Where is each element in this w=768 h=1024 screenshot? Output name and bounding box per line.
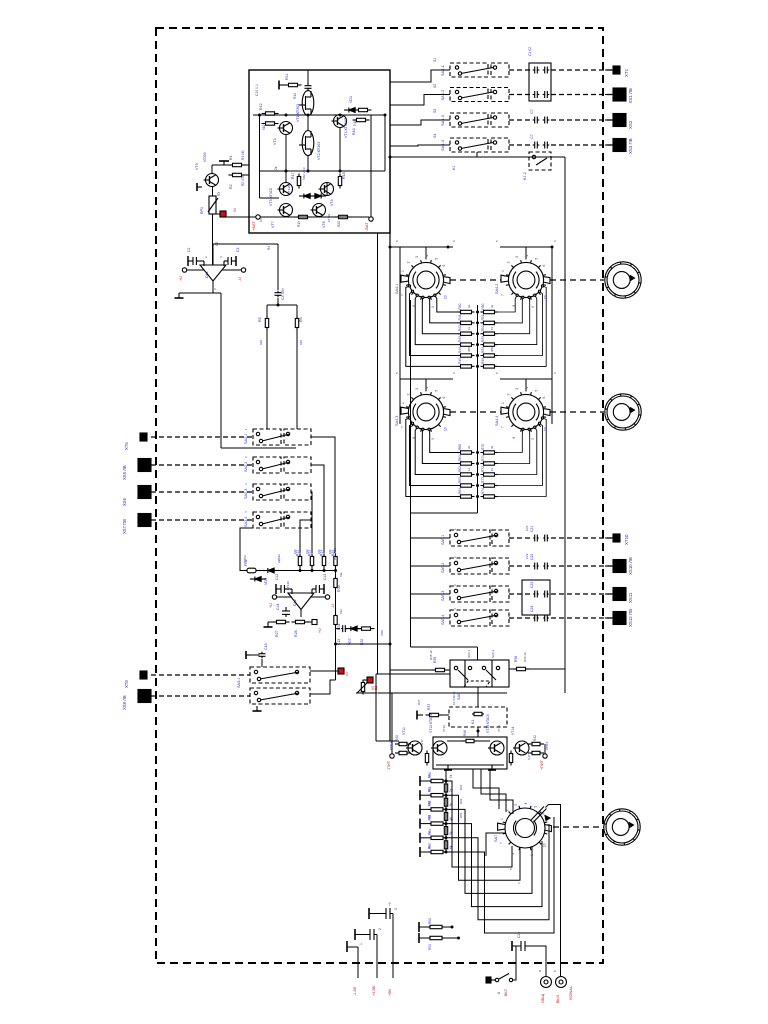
resistor R94 bbox=[444, 839, 447, 850]
svg-text:R70: R70 bbox=[481, 444, 485, 450]
svg-text:R51: R51 bbox=[481, 314, 485, 320]
wire bbox=[425, 247, 427, 259]
svg-text:R2 47k: R2 47k bbox=[241, 175, 245, 186]
svg-text:DA2: DA2 bbox=[293, 599, 297, 606]
wire bbox=[259, 115, 261, 198]
svg-text:4: 4 bbox=[524, 803, 528, 805]
resistor R55 bbox=[481, 365, 498, 368]
resistor R16 bbox=[353, 118, 370, 121]
terminal -BAT bbox=[369, 217, 373, 221]
wire bbox=[525, 379, 527, 391]
ground bbox=[368, 908, 370, 919]
wire bbox=[498, 286, 547, 366]
svg-text:R16: R16 bbox=[352, 128, 356, 135]
resistor R41 bbox=[458, 321, 475, 324]
wire bbox=[300, 610, 302, 618]
wire bbox=[311, 465, 324, 553]
svg-text:6: 6 bbox=[442, 265, 446, 267]
svg-text:ОБЩ: ОБЩ bbox=[541, 994, 545, 1003]
svg-text:XS6: XS6 bbox=[122, 497, 127, 506]
wire bbox=[447, 740, 462, 742]
resistor R70 bbox=[481, 451, 498, 454]
svg-text:R36 1k: R36 1k bbox=[523, 652, 527, 662]
resistor R53 bbox=[481, 343, 498, 346]
wire bbox=[550, 411, 604, 413]
resistor R27 bbox=[273, 620, 290, 623]
svg-text:C22: C22 bbox=[530, 554, 534, 560]
wire bbox=[151, 464, 253, 466]
resistor R40 bbox=[395, 742, 411, 745]
svg-text:10k: 10k bbox=[305, 549, 309, 554]
output stage box bbox=[433, 737, 507, 769]
wire bbox=[212, 164, 232, 166]
svg-text:XT10: XT10 bbox=[624, 534, 629, 545]
svg-text:S3: S3 bbox=[433, 109, 437, 113]
svg-text:62k: 62k bbox=[339, 572, 343, 577]
ground bbox=[419, 804, 421, 814]
svg-text:10k: 10k bbox=[328, 549, 332, 554]
svg-text:R20: R20 bbox=[337, 221, 341, 227]
rotary switch SA4.2 bbox=[501, 260, 550, 300]
svg-text:4: 4 bbox=[425, 255, 429, 257]
rotary switch SA4.3 bbox=[401, 392, 450, 432]
resistor R11 bbox=[285, 83, 302, 86]
capacitor C bbox=[543, 117, 550, 124]
capacitor C bbox=[543, 591, 549, 598]
wire bbox=[498, 423, 543, 485]
ground bbox=[419, 819, 421, 829]
capacitor C4 bbox=[275, 291, 282, 298]
svg-text:0.47: 0.47 bbox=[527, 754, 531, 760]
svg-text:C14: C14 bbox=[276, 604, 280, 610]
wire bbox=[244, 174, 249, 176]
switch SA3.1 box bbox=[250, 667, 310, 683]
resistor R46 bbox=[462, 739, 478, 742]
wire bbox=[509, 119, 530, 121]
transistor VT10 bbox=[357, 682, 368, 693]
wire bbox=[179, 292, 213, 294]
diode VD7 bbox=[346, 626, 362, 631]
transistor VT4 bbox=[332, 115, 347, 128]
relay K1 coil box bbox=[449, 707, 507, 727]
wire bbox=[445, 769, 447, 781]
svg-text:6: 6 bbox=[442, 397, 446, 399]
svg-text:3: 3 bbox=[394, 908, 398, 910]
wire bbox=[220, 293, 222, 448]
svg-text:0.25A: 0.25A bbox=[243, 555, 247, 563]
wire bbox=[551, 565, 612, 567]
wire bbox=[429, 429, 457, 452]
wire bbox=[473, 769, 499, 809]
wire bbox=[450, 411, 501, 413]
svg-text:SA4.3: SA4.3 bbox=[395, 416, 399, 426]
wire bbox=[509, 69, 530, 71]
resistor R61 bbox=[458, 462, 475, 465]
wire bbox=[477, 727, 479, 737]
svg-text:9: 9 bbox=[431, 306, 435, 308]
switch SA5.1 contacts bbox=[454, 533, 498, 543]
wire bbox=[446, 817, 554, 933]
wire bbox=[376, 935, 378, 979]
svg-text:R63: R63 bbox=[458, 477, 462, 483]
wire bbox=[363, 679, 367, 681]
red terminal bbox=[338, 668, 344, 674]
resistor R2 bbox=[229, 173, 246, 176]
enclosure dashed border bbox=[156, 28, 603, 963]
front-panel knob RANGE bbox=[604, 809, 640, 845]
svg-text:VD8: VD8 bbox=[380, 630, 384, 636]
svg-text:VT8: VT8 bbox=[322, 221, 326, 228]
wire bbox=[498, 295, 537, 344]
ground bbox=[511, 941, 513, 951]
transistor VT3 bbox=[278, 122, 293, 135]
switch SA1.3 contacts bbox=[455, 116, 496, 125]
svg-text:SA5.4: SA5.4 bbox=[441, 615, 445, 625]
capacitor C14 bbox=[282, 607, 290, 617]
svg-text:10: 10 bbox=[443, 427, 447, 431]
switch SA2.3 contacts bbox=[256, 487, 290, 497]
wire bbox=[512, 945, 521, 947]
svg-text:-U: -U bbox=[331, 604, 335, 608]
wire bbox=[500, 379, 552, 424]
svg-text:VT13: VT13 bbox=[497, 725, 501, 732]
resistor R17 bbox=[297, 174, 300, 189]
svg-text:6: 6 bbox=[542, 265, 546, 267]
resistor R12 bbox=[262, 112, 279, 115]
svg-text:SA6: SA6 bbox=[457, 693, 461, 700]
svg-text:300: 300 bbox=[467, 347, 471, 352]
capacitor C13 bbox=[312, 585, 319, 594]
switch SA5.4 box2 bbox=[492, 610, 509, 626]
svg-text:VT3: VT3 bbox=[273, 138, 277, 145]
svg-text:VT2 КП303: VT2 КП303 bbox=[317, 142, 321, 160]
svg-text:XS3 ПВ: XS3 ПВ bbox=[628, 138, 633, 154]
svg-text:R46: R46 bbox=[463, 730, 467, 736]
wire bbox=[307, 156, 309, 172]
svg-text:3: 3 bbox=[515, 388, 519, 390]
wire bbox=[389, 156, 565, 158]
wire bbox=[553, 826, 604, 828]
wire bbox=[390, 70, 450, 82]
svg-text:R27: R27 bbox=[275, 630, 279, 637]
wire bbox=[406, 418, 458, 497]
capacitor C bbox=[533, 615, 539, 622]
relay contact K1.2 bbox=[529, 152, 551, 170]
connector XS10 ЛВ bbox=[605, 560, 626, 573]
transistor VT8 bbox=[311, 204, 326, 217]
wire bbox=[212, 214, 214, 265]
wire bbox=[296, 328, 298, 429]
resistor R45 bbox=[509, 751, 512, 766]
svg-text:+9: +9 bbox=[388, 902, 392, 906]
svg-text:R3: R3 bbox=[217, 192, 221, 196]
resistor R5 bbox=[265, 316, 268, 331]
switch SA1.3 second box bbox=[491, 113, 509, 127]
wire bbox=[151, 519, 253, 521]
svg-text:ВЫХ: ВЫХ bbox=[556, 994, 560, 1003]
svg-text:R93: R93 bbox=[459, 812, 463, 818]
svg-text:C24: C24 bbox=[530, 606, 534, 612]
wire bbox=[253, 114, 385, 116]
switch SA5.4 contacts bbox=[454, 613, 498, 623]
wire bbox=[151, 695, 250, 697]
connector XS2 bbox=[605, 114, 626, 127]
resistor R25 bbox=[334, 554, 337, 569]
resistor R44 bbox=[425, 751, 428, 766]
svg-text:5: 5 bbox=[435, 390, 439, 392]
svg-text:SA4.4: SA4.4 bbox=[495, 416, 499, 426]
wire bbox=[391, 744, 393, 754]
svg-text:R12: R12 bbox=[259, 103, 263, 110]
svg-text:C23: C23 bbox=[530, 582, 534, 588]
svg-text:R41: R41 bbox=[458, 314, 462, 320]
ground bbox=[419, 776, 421, 786]
svg-text:10: 10 bbox=[543, 427, 547, 431]
wire bbox=[296, 305, 298, 318]
svg-text:0.47: 0.47 bbox=[420, 739, 424, 745]
wire bbox=[221, 447, 296, 449]
svg-text:R92: R92 bbox=[459, 798, 463, 804]
svg-text:R42: R42 bbox=[458, 325, 462, 331]
svg-text:8: 8 bbox=[511, 853, 515, 855]
wire bbox=[216, 213, 220, 215]
svg-text:8: 8 bbox=[497, 992, 501, 994]
switch SA1.1 second box bbox=[491, 63, 509, 77]
svg-text:K1: K1 bbox=[471, 720, 475, 724]
wire bbox=[310, 680, 336, 694]
svg-text:R4: R4 bbox=[267, 246, 271, 250]
svg-text:C7: C7 bbox=[530, 109, 534, 114]
wire bbox=[436, 764, 504, 766]
svg-text:R53: R53 bbox=[481, 336, 485, 342]
wire bbox=[261, 659, 263, 667]
svg-text:XS2: XS2 bbox=[628, 120, 633, 129]
svg-text:1: 1 bbox=[501, 270, 505, 272]
wire bbox=[377, 233, 379, 674]
wire bbox=[420, 837, 429, 839]
svg-text:R2: R2 bbox=[229, 184, 233, 189]
resistor R33 bbox=[361, 680, 364, 695]
wire bbox=[422, 429, 457, 463]
svg-text:C21: C21 bbox=[530, 526, 534, 532]
ground bbox=[187, 256, 189, 266]
wire bbox=[564, 157, 566, 693]
svg-text:R50: R50 bbox=[481, 303, 485, 309]
wire bbox=[450, 279, 501, 281]
svg-text:-U: -U bbox=[238, 277, 242, 281]
switch SA1.2 contacts bbox=[455, 90, 496, 99]
wire bbox=[300, 520, 311, 553]
wire bbox=[420, 851, 429, 853]
wire bbox=[498, 297, 530, 333]
resistor R37 bbox=[426, 713, 443, 716]
ground bbox=[346, 941, 348, 952]
svg-text:R60: R60 bbox=[458, 444, 462, 450]
wire bbox=[260, 170, 386, 172]
svg-text:R28: R28 bbox=[294, 630, 298, 637]
rotary switch SA4.1 bbox=[401, 260, 450, 300]
resistor R41 bbox=[395, 751, 411, 754]
svg-text:XT8: XT8 bbox=[124, 680, 129, 688]
svg-text:62k: 62k bbox=[339, 609, 343, 614]
svg-text:XT1: XT1 bbox=[624, 68, 629, 77]
svg-text:6: 6 bbox=[542, 397, 546, 399]
wire bbox=[335, 566, 337, 571]
wire bbox=[357, 947, 359, 978]
capacitor C15 bbox=[341, 625, 347, 632]
svg-text:VT9: VT9 bbox=[195, 163, 199, 170]
svg-text:SA5.1: SA5.1 bbox=[441, 535, 445, 545]
ground bbox=[235, 256, 237, 266]
wire bbox=[374, 934, 377, 936]
resistor R60 bbox=[458, 451, 475, 454]
wire bbox=[420, 808, 429, 810]
wire bbox=[429, 297, 457, 323]
terminal bbox=[543, 754, 547, 758]
capacitor C bbox=[533, 535, 539, 542]
capacitor C2 bbox=[193, 257, 204, 266]
resistor R30 bbox=[334, 576, 337, 591]
ground bbox=[417, 711, 423, 720]
wire bbox=[420, 794, 429, 796]
resistor R92 bbox=[444, 811, 447, 822]
svg-text:ВКЛ: ВКЛ bbox=[504, 989, 508, 996]
svg-text:VT12 КТ814: VT12 КТ814 bbox=[429, 714, 433, 733]
svg-text:b: b bbox=[553, 970, 557, 972]
wire bbox=[420, 780, 429, 782]
capacitor block bbox=[522, 580, 550, 615]
svg-text:3: 3 bbox=[415, 256, 419, 258]
wire bbox=[513, 946, 516, 980]
terminal bbox=[325, 595, 329, 599]
switch SA5.2 box bbox=[450, 558, 490, 574]
wire bbox=[268, 621, 276, 623]
dual JFET VT1 (half A) bbox=[299, 91, 314, 116]
capacitor C bbox=[543, 563, 549, 570]
capacitor C18 bbox=[370, 929, 374, 940]
wire bbox=[551, 593, 612, 595]
svg-text:R35: R35 bbox=[433, 657, 437, 663]
svg-text:4: 4 bbox=[425, 387, 429, 389]
svg-text:3: 3 bbox=[515, 256, 519, 258]
switch SA2.1 box2 bbox=[284, 429, 311, 445]
svg-text:R5: R5 bbox=[258, 317, 262, 322]
svg-text:2: 2 bbox=[506, 261, 510, 263]
wire bbox=[390, 669, 435, 671]
svg-text:7: 7 bbox=[500, 294, 504, 296]
svg-text:1k: 1k bbox=[449, 774, 453, 778]
svg-text:XS12 ПВ: XS12 ПВ bbox=[628, 609, 633, 627]
switch SA1.1 section box bbox=[450, 63, 488, 77]
svg-text:XS11: XS11 bbox=[628, 592, 633, 603]
svg-text:R30: R30 bbox=[337, 585, 341, 592]
svg-text:VT14: VT14 bbox=[511, 727, 515, 735]
terminal bbox=[312, 620, 317, 625]
svg-text:1: 1 bbox=[401, 402, 405, 404]
wire bbox=[260, 216, 369, 218]
svg-text:R1 1M: R1 1M bbox=[241, 150, 245, 160]
svg-text:R36: R36 bbox=[514, 656, 518, 662]
svg-text:300: 300 bbox=[490, 347, 494, 352]
wire bbox=[213, 281, 221, 293]
wire bbox=[311, 566, 313, 571]
wire bbox=[392, 914, 394, 979]
svg-text:VT4 КТ3107: VT4 КТ3107 bbox=[344, 118, 348, 138]
resistor R36 bbox=[513, 667, 530, 670]
svg-text:SA5.2: SA5.2 bbox=[441, 563, 445, 573]
svg-text:620: 620 bbox=[259, 340, 263, 345]
wire bbox=[477, 687, 479, 707]
svg-text:S1: S1 bbox=[433, 58, 437, 62]
svg-text:620: 620 bbox=[299, 340, 303, 345]
wire bbox=[498, 429, 530, 463]
svg-text:R62: R62 bbox=[458, 466, 462, 472]
wire bbox=[336, 643, 390, 645]
svg-text:XS10 ЛВ: XS10 ЛВ bbox=[628, 557, 633, 575]
ground bbox=[264, 622, 273, 627]
svg-text:SA2.1: SA2.1 bbox=[244, 434, 248, 444]
switch SA1.4 section box bbox=[450, 138, 488, 152]
svg-text:XS8 ЛВ: XS8 ЛВ bbox=[122, 695, 127, 710]
svg-text:510: 510 bbox=[262, 124, 266, 130]
resistor R35 bbox=[432, 668, 449, 671]
ground bbox=[219, 161, 229, 165]
ground bbox=[354, 929, 356, 940]
wire bbox=[419, 937, 428, 939]
resistor R32 bbox=[358, 627, 375, 630]
resistor R82 bbox=[429, 808, 445, 811]
wire bbox=[356, 692, 378, 694]
wire bbox=[277, 244, 279, 290]
resistor R52 bbox=[481, 332, 498, 335]
svg-text:C2: C2 bbox=[187, 248, 191, 252]
fuse FU1 bbox=[244, 568, 264, 573]
wire bbox=[389, 157, 391, 741]
wire bbox=[384, 115, 386, 171]
ground bbox=[279, 81, 285, 90]
svg-text:R37: R37 bbox=[417, 699, 421, 705]
diode VD2 bbox=[299, 194, 315, 199]
svg-text:XS1 ЛВ: XS1 ЛВ bbox=[628, 88, 633, 103]
svg-text:SA6.2: SA6.2 bbox=[491, 649, 495, 658]
svg-text:C13: C13 bbox=[323, 574, 327, 580]
svg-text:9: 9 bbox=[431, 438, 435, 440]
svg-text:10: 10 bbox=[427, 774, 431, 778]
svg-text:R1: R1 bbox=[229, 155, 233, 160]
wire bbox=[279, 570, 300, 572]
wire bbox=[212, 244, 214, 265]
wire bbox=[336, 628, 341, 630]
switch SA1.4 contacts bbox=[455, 141, 496, 150]
svg-text:КР140: КР140 bbox=[286, 581, 290, 590]
switch SA2.2 box2 bbox=[284, 457, 311, 473]
wire bbox=[390, 120, 450, 125]
svg-text:2: 2 bbox=[406, 393, 410, 395]
resistor R43 bbox=[528, 751, 544, 754]
wire bbox=[390, 145, 450, 146]
wire bbox=[240, 528, 253, 571]
svg-text:10: 10 bbox=[542, 843, 546, 847]
wire bbox=[498, 295, 518, 312]
wire bbox=[151, 436, 253, 438]
svg-text:C12: C12 bbox=[275, 574, 279, 580]
svg-text:K1 РЭС49: K1 РЭС49 bbox=[452, 691, 456, 705]
svg-text:2: 2 bbox=[378, 928, 382, 930]
wire bbox=[400, 247, 453, 292]
switch SA6 link bbox=[464, 681, 490, 687]
op-amp DA2 bbox=[288, 593, 314, 610]
ground bbox=[197, 183, 202, 191]
